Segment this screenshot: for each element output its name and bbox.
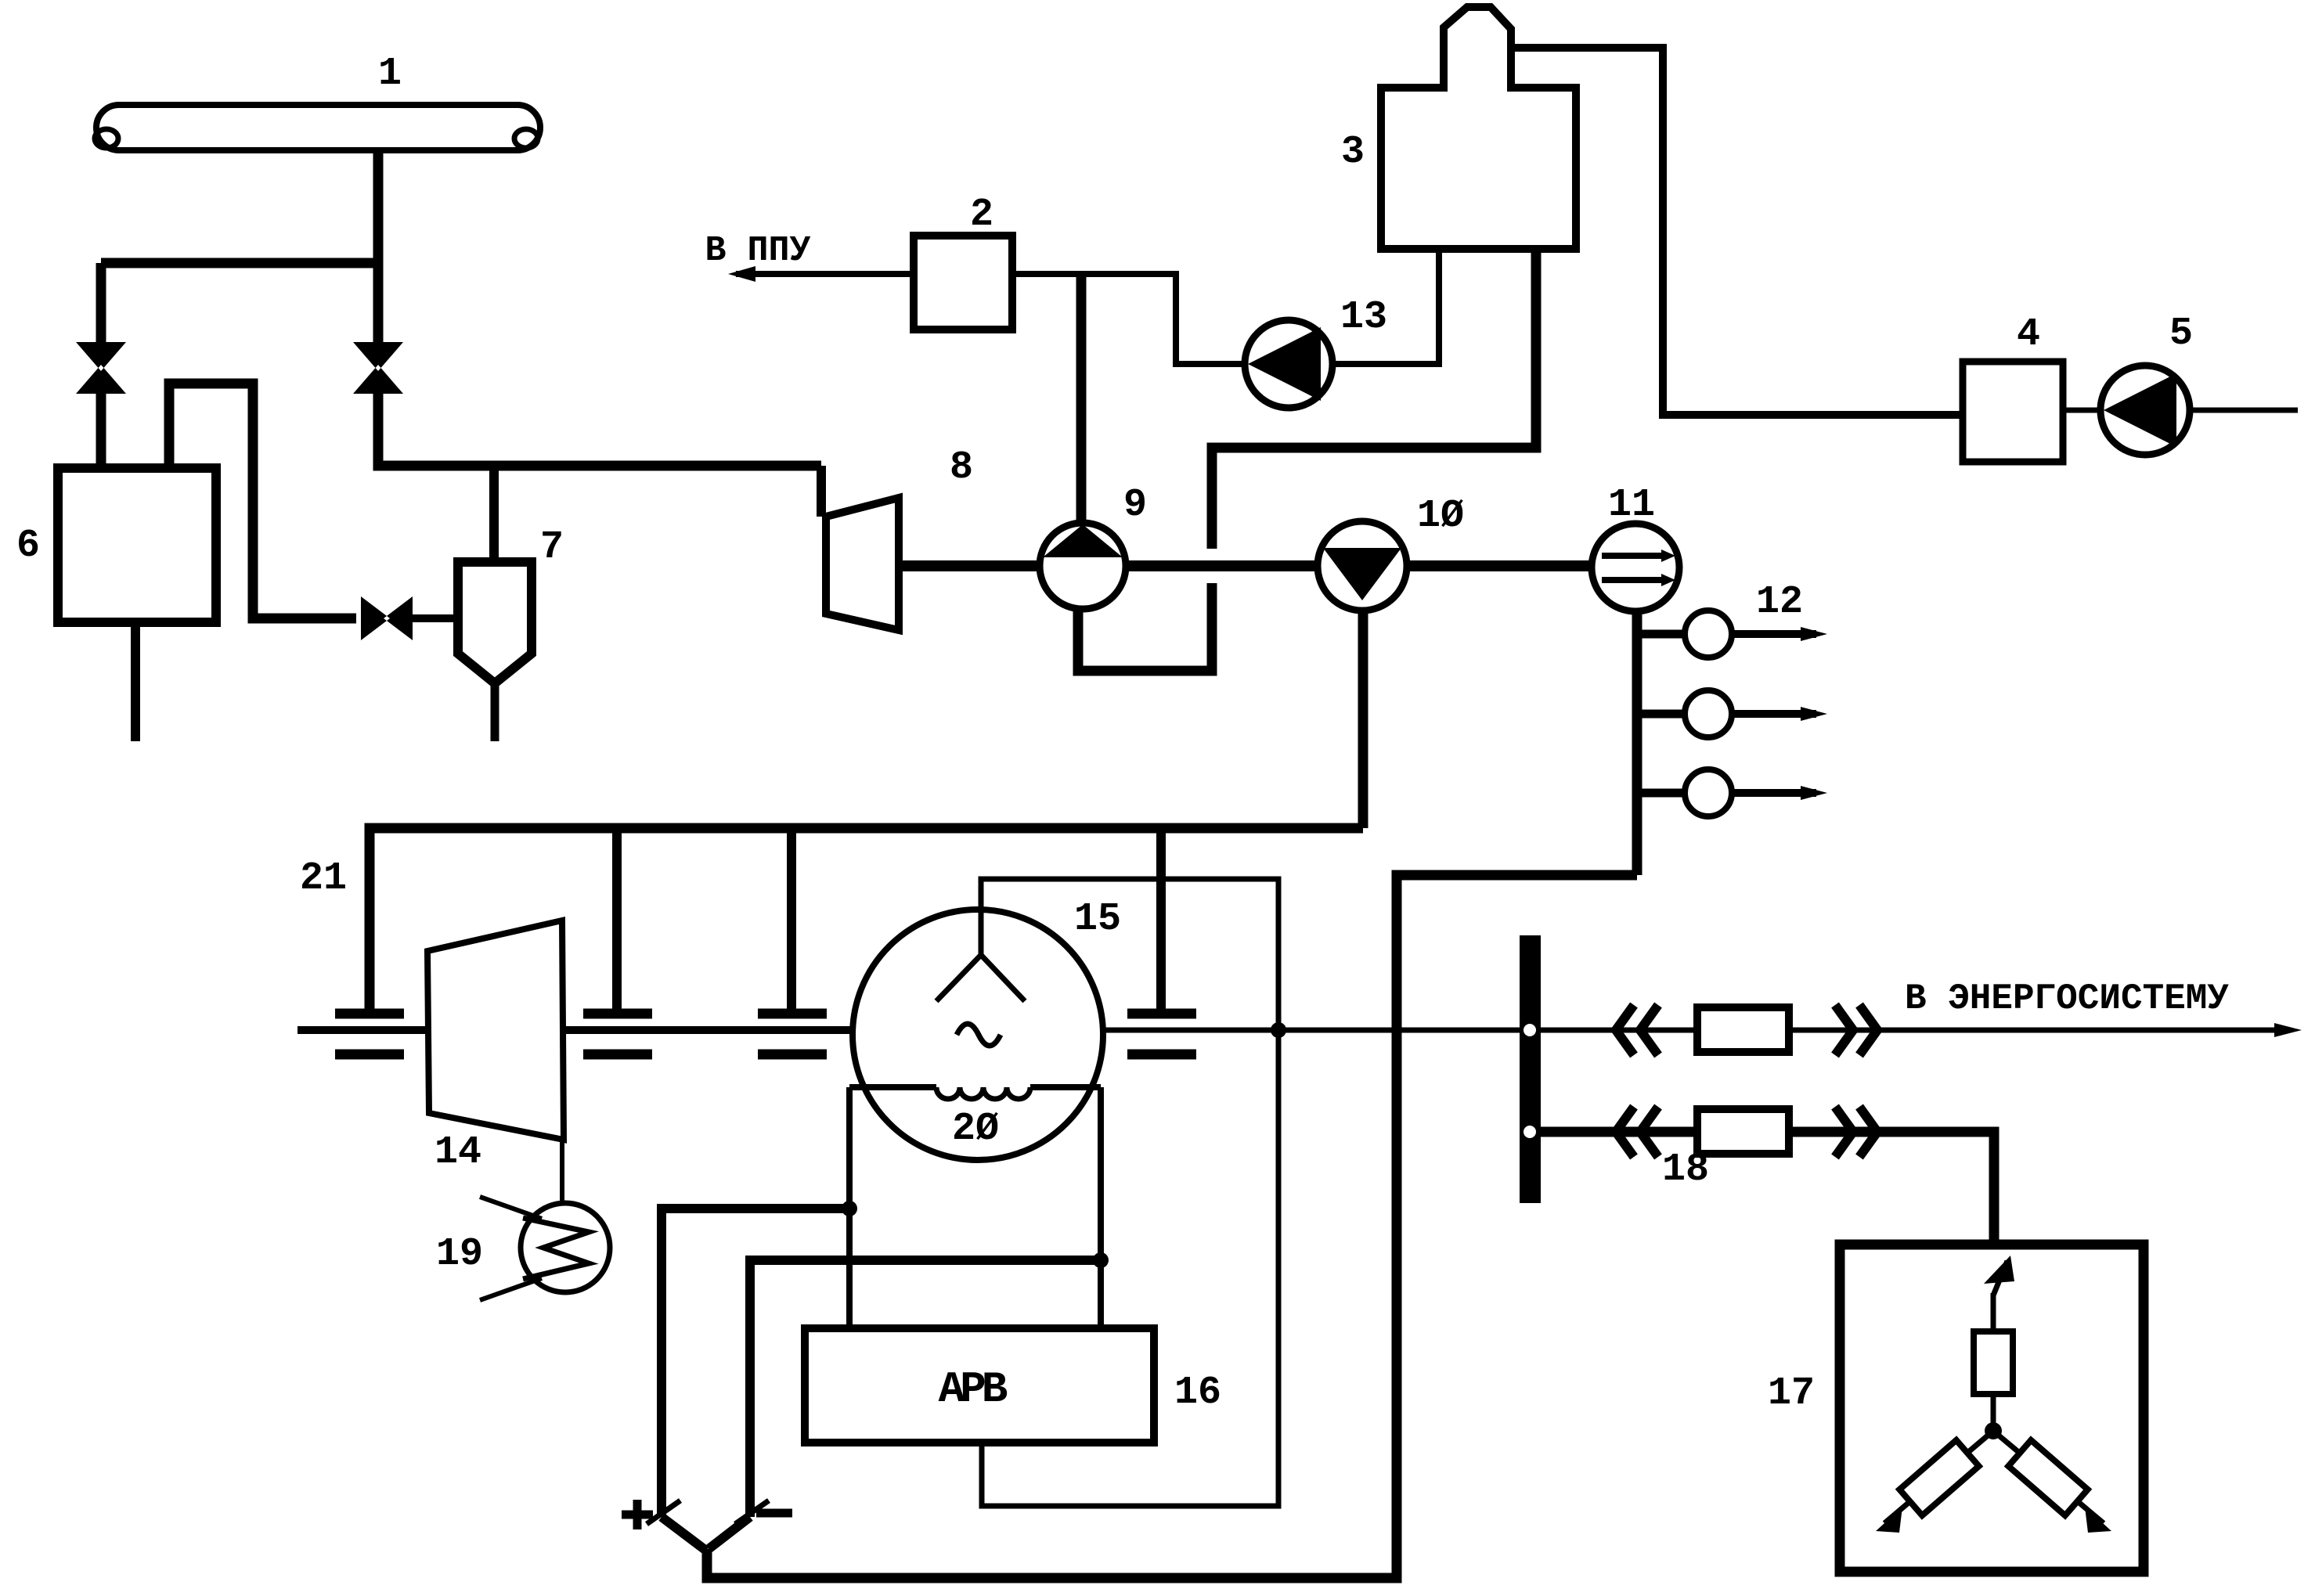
- wire feedwater down to pump 9: [1076, 274, 1087, 524]
- tank 6: [58, 468, 216, 622]
- feeder 2 chevrons right: [1835, 1107, 1877, 1157]
- wire left valve drop: [96, 263, 106, 344]
- turbine 14: [427, 920, 564, 1140]
- pump 10: [1318, 521, 1407, 611]
- wire tank 6 drain: [131, 622, 140, 741]
- svg-text:8: 8: [950, 445, 973, 490]
- wire AVR feedback: [982, 1030, 1278, 1506]
- deaerator 3: [1381, 7, 1576, 249]
- pump 5: [2100, 366, 2190, 455]
- wire stator lead: [981, 879, 1278, 1030]
- pump 9: [1040, 523, 1126, 609]
- wire pump 10 drain: [1358, 610, 1368, 828]
- turbine 8: [826, 498, 899, 630]
- wire right valve drop: [373, 268, 384, 344]
- wire pump 9 to pump 10: [1126, 560, 1319, 571]
- pump 13: [1245, 320, 1332, 408]
- wire pump 5 outlet: [2190, 408, 2298, 413]
- busbar node 2: [1524, 1126, 1536, 1138]
- label plus: [622, 1500, 653, 1529]
- bearing B4: [1127, 828, 1196, 1054]
- svg-text:2: 2: [970, 193, 993, 237]
- svg-text:3: 3: [1341, 130, 1365, 175]
- device 2: [914, 236, 1012, 330]
- wire drain to exciter: [707, 875, 1637, 1578]
- svg-text:АРВ: АРВ: [939, 1364, 1008, 1414]
- bearing B3: [758, 828, 827, 1054]
- wire pump 10 to meter 11: [1407, 560, 1592, 571]
- svg-text:13: 13: [1340, 295, 1387, 340]
- busbar node 1: [1524, 1024, 1536, 1036]
- svg-text:5: 5: [2169, 312, 2193, 356]
- flow meter 11: [1592, 524, 1679, 611]
- wire rotor lead left: [846, 1087, 853, 1328]
- svg-text:19: 19: [436, 1232, 483, 1277]
- svg-text:16: 16: [1174, 1371, 1221, 1415]
- node A: [1271, 1022, 1286, 1038]
- valve V1 (left): [76, 342, 126, 394]
- feeder 2 chevrons left: [1616, 1107, 1658, 1157]
- AVR box 16: [805, 1328, 1154, 1443]
- valve V2 (right): [353, 342, 403, 394]
- svg-text:6: 6: [16, 524, 40, 568]
- svg-text:17: 17: [1768, 1371, 1815, 1416]
- svg-text:9: 9: [1123, 483, 1147, 528]
- valve V3 (horizontal): [361, 596, 413, 640]
- svg-text:В ЭНЕРГОСИСТЕМУ: В ЭНЕРГОСИСТЕМУ: [1905, 978, 2229, 1019]
- exciter V: [662, 1517, 750, 1578]
- wire rotor lead right: [1098, 1087, 1104, 1328]
- load box 17: [1840, 1245, 2144, 1572]
- wire bypass lower segment: [1078, 583, 1212, 671]
- wire branch to valve left: [101, 258, 378, 268]
- wire valve to separator 7: [413, 614, 462, 622]
- svg-text:12: 12: [1756, 580, 1803, 625]
- wire turbine 14 exhaust: [560, 1140, 564, 1205]
- wire shaft turbine to generator: [564, 1026, 854, 1034]
- minus tick: [735, 1501, 769, 1524]
- node B: [842, 1201, 857, 1216]
- svg-text:18: 18: [1662, 1147, 1709, 1192]
- wire deaerator outlet to bypass: [1212, 249, 1536, 549]
- wire oil header: [370, 828, 1363, 1009]
- wire exciter minus: [750, 1260, 1102, 1517]
- outlet 12a: [1637, 611, 1827, 657]
- load star: [1876, 1256, 2111, 1533]
- svg-text:14: 14: [435, 1130, 481, 1175]
- outlet 12c: [1637, 769, 1827, 816]
- wire exciter plus: [662, 1209, 849, 1517]
- wire shaft left stub: [297, 1026, 429, 1034]
- feeder 1 chevrons left: [1616, 1005, 1658, 1055]
- wire turbine 8 to pump 9: [899, 560, 1041, 571]
- label minus: [756, 1509, 792, 1518]
- generator 15: [853, 910, 1103, 1160]
- plus tick: [647, 1501, 680, 1524]
- busbar: [1520, 935, 1541, 1203]
- wire meter 11 drain: [1632, 611, 1642, 875]
- rotor winding 20: [849, 1087, 1101, 1099]
- wire pump 13 to deaerator 3: [1332, 247, 1439, 364]
- generator Y winding: [936, 910, 1025, 1001]
- wire B PPU arrow line: [736, 271, 914, 277]
- svg-text:В ППУ: В ППУ: [705, 231, 810, 271]
- device 4: [1963, 362, 2063, 462]
- outlet 12b: [1637, 690, 1827, 737]
- bearing B1: [335, 1014, 404, 1054]
- wire separator 7 drain: [491, 683, 499, 741]
- svg-text:4: 4: [2017, 312, 2040, 357]
- wire valve to tank 6: [96, 394, 106, 470]
- svg-text:21: 21: [300, 856, 347, 901]
- wire pipe tap: [373, 150, 384, 268]
- feeder 1 line: [1541, 1028, 1697, 1033]
- wire separator feed tee: [489, 466, 499, 562]
- svg-text:15: 15: [1074, 897, 1121, 942]
- wire turbine 8 inlet drop: [817, 466, 826, 517]
- svg-text:11: 11: [1608, 483, 1655, 528]
- wire generator output to busbar: [1103, 1028, 1520, 1033]
- svg-text:1Ø: 1Ø: [1417, 494, 1464, 539]
- condenser 19: [480, 1197, 610, 1300]
- generator sine: [957, 1024, 1001, 1046]
- wire tank 6 riser to separator: [169, 384, 356, 618]
- wire device 2 to pump 13: [1012, 274, 1246, 364]
- node C: [1093, 1252, 1109, 1268]
- feeder 2 line: [1541, 1127, 1697, 1137]
- svg-text:2Ø: 2Ø: [952, 1107, 999, 1151]
- pipe 1: [95, 105, 540, 150]
- feeder 1 chevrons right: [1835, 1005, 1877, 1055]
- svg-text:1: 1: [378, 52, 402, 96]
- svg-text:7: 7: [540, 525, 564, 570]
- feeder 1 breaker box: [1697, 1007, 1789, 1052]
- wire device 4 to pump 5: [2063, 408, 2101, 413]
- feeder 2 breaker box: [1697, 1109, 1789, 1154]
- bearing B2: [583, 828, 652, 1054]
- wire main steam line: [378, 394, 821, 466]
- wire dome to device 4: [1511, 48, 1963, 415]
- separator 7: [458, 562, 532, 683]
